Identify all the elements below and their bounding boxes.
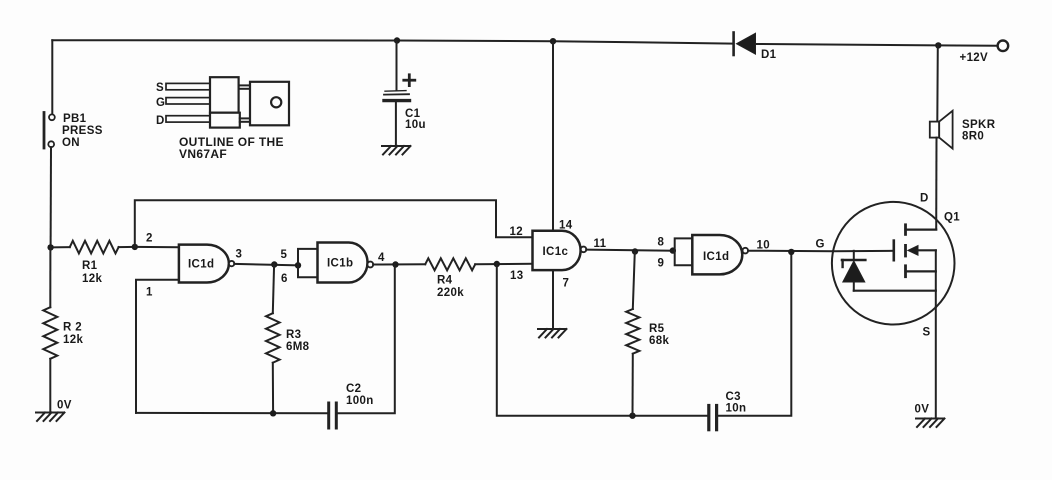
svg-text:4: 4 <box>378 252 385 264</box>
capacitor C1 <box>384 75 426 131</box>
wire left rail down to switch <box>51 40 53 114</box>
svg-text:R1: R1 <box>82 260 98 272</box>
resistor R2 <box>43 247 83 412</box>
svg-text:1: 1 <box>146 287 153 299</box>
Q1 gate wire <box>833 250 894 252</box>
svg-text:C3: C3 <box>726 391 741 403</box>
svg-text:ON: ON <box>62 137 80 149</box>
resistor R3 <box>266 265 310 414</box>
resistor R5 <box>626 252 669 416</box>
svg-text:9: 9 <box>658 258 665 270</box>
wire pin14 from rail <box>552 41 554 231</box>
Q1 source stub <box>906 270 936 272</box>
svg-text:12k: 12k <box>82 273 102 285</box>
junction IC1b input bracket <box>295 262 301 268</box>
capacitor C2 <box>329 383 374 428</box>
diode D1 <box>734 33 777 62</box>
resistor R1 <box>51 241 135 285</box>
transistor Q1 VMOS envelope <box>832 202 955 325</box>
svg-text:0V: 0V <box>915 404 930 416</box>
junction pin4 / C2 branch <box>392 261 398 267</box>
lead G <box>166 98 210 104</box>
wire source to ground <box>935 307 937 418</box>
Q1 channel dashes <box>904 225 907 277</box>
svg-text:D: D <box>920 193 929 205</box>
node +12V terminal <box>998 41 1009 52</box>
Q1 gate bar <box>892 241 895 261</box>
wire C3 right up to pin10 <box>718 252 791 416</box>
wire top rail right of D1 <box>756 44 997 46</box>
wire pin3 to IC1b inputs <box>234 264 298 265</box>
package body <box>210 77 239 113</box>
svg-text:10u: 10u <box>405 119 426 131</box>
svg-text:2: 2 <box>146 233 153 245</box>
junction C1 / top rail <box>394 37 400 43</box>
junction pin13 / C3 branch <box>494 261 500 267</box>
svg-text:R3: R3 <box>286 329 301 341</box>
Q1 protection zener <box>842 251 865 291</box>
svg-text:12: 12 <box>510 226 524 238</box>
svg-text:12k: 12k <box>63 334 83 346</box>
op-amp gate IC1b (pins 5,6 -> 4) <box>318 243 374 283</box>
svg-text:68k: 68k <box>649 335 669 347</box>
svg-text:G: G <box>816 239 825 251</box>
svg-text:R5: R5 <box>649 323 665 335</box>
lead D <box>166 116 210 122</box>
lead S <box>166 83 210 89</box>
svg-text:R4: R4 <box>437 275 453 287</box>
wire pin1 input leg <box>136 280 179 413</box>
outline drawing of VN67AF package <box>156 77 289 161</box>
capacitor C3 <box>709 391 747 430</box>
switch PB1 <box>44 113 103 150</box>
resistor R4 <box>425 258 532 299</box>
junction pin10 / C3 branch <box>788 249 794 255</box>
op-amp gate IC1d (second, pins 8,9 -> 10) <box>692 235 748 274</box>
svg-text:SPKR: SPKR <box>962 119 996 131</box>
svg-text:IC1b: IC1b <box>327 258 353 270</box>
svg-text:6: 6 <box>281 273 288 285</box>
svg-text:G: G <box>156 97 165 109</box>
wire C2 right to pin4 <box>338 265 395 414</box>
svg-text:S: S <box>156 82 164 94</box>
package tab <box>250 82 289 126</box>
svg-text:8: 8 <box>658 237 665 249</box>
svg-text:IC1d: IC1d <box>703 251 729 263</box>
wire speaker to drain <box>935 138 937 230</box>
svg-text:VN67AF: VN67AF <box>179 147 227 161</box>
wire pin13 branch down <box>497 264 707 416</box>
svg-text:8R0: 8R0 <box>962 130 984 142</box>
junction IC1d input bracket <box>670 247 676 253</box>
op-amp gate IC1c (pins 12,13 -> 11) <box>533 231 587 270</box>
input bracket IC1b pins 5,6 <box>298 249 318 277</box>
Q1 source vertical <box>935 250 937 307</box>
svg-text:0V: 0V <box>57 400 72 412</box>
wire pin4 to R4 <box>373 263 425 265</box>
svg-text:D: D <box>156 115 165 127</box>
svg-text:+12V: +12V <box>960 52 989 64</box>
junction R5 bottom <box>629 413 635 419</box>
svg-text:C2: C2 <box>346 383 361 395</box>
Q1 drain stub <box>906 229 937 231</box>
svg-text:11: 11 <box>594 238 607 250</box>
svg-text:6M8: 6M8 <box>286 341 310 353</box>
junction speaker / top rail <box>935 42 941 48</box>
tab hole <box>271 97 281 107</box>
Q1 internal source wire <box>854 290 936 292</box>
ground IC1c pin7 <box>538 329 567 338</box>
svg-text:D1: D1 <box>761 49 777 61</box>
ground R2 <box>36 413 65 422</box>
wire C1 to ground <box>395 100 397 145</box>
wire pin11 to IC1d inputs <box>586 250 674 251</box>
wire C1 to rail <box>396 41 398 91</box>
svg-text:100n: 100n <box>346 395 374 407</box>
wire C2 left rail <box>136 412 327 414</box>
Q1 body arrow <box>908 246 936 256</box>
svg-text:220k: 220k <box>437 287 464 299</box>
svg-text:7: 7 <box>563 277 570 289</box>
op-amp gate IC1d (first, pins 1,2 -> 3) <box>179 245 234 283</box>
junction pin2 / feedback <box>132 244 138 250</box>
package neck bottom <box>240 117 250 119</box>
svg-text:PRESS: PRESS <box>62 125 103 137</box>
junction R3 top <box>271 261 277 267</box>
package neck top <box>239 84 250 86</box>
svg-text:13: 13 <box>510 270 524 282</box>
svg-text:R 2: R 2 <box>63 322 82 334</box>
wire pin7 to ground <box>552 270 554 328</box>
wire switch to R1 node <box>50 147 52 247</box>
svg-text:IC1c: IC1c <box>543 246 569 258</box>
ground Q1 source <box>916 419 945 428</box>
svg-text:PB1: PB1 <box>63 113 87 125</box>
svg-text:5: 5 <box>281 249 288 261</box>
junction R1 / R2 / switch <box>47 244 53 250</box>
junction R5 top <box>632 248 638 254</box>
junction R3 bottom <box>270 410 276 416</box>
svg-text:IC1d: IC1d <box>188 259 214 271</box>
speaker SPKR 8R0 <box>930 45 996 148</box>
wire pin10 to gate G <box>748 250 833 253</box>
svg-text:S: S <box>923 327 931 339</box>
wire pin2 into gate <box>135 246 179 248</box>
wire feedback pin4 area to pin12 <box>135 200 533 247</box>
svg-text:10n: 10n <box>726 403 747 415</box>
svg-text:3: 3 <box>236 249 243 261</box>
ground C1 <box>382 146 411 155</box>
junction pin14 drop / top rail <box>550 38 556 44</box>
input bracket IC1d pins 8,9 <box>675 238 693 265</box>
wire top supply rail <box>52 40 732 43</box>
svg-text:Q1: Q1 <box>944 212 960 224</box>
